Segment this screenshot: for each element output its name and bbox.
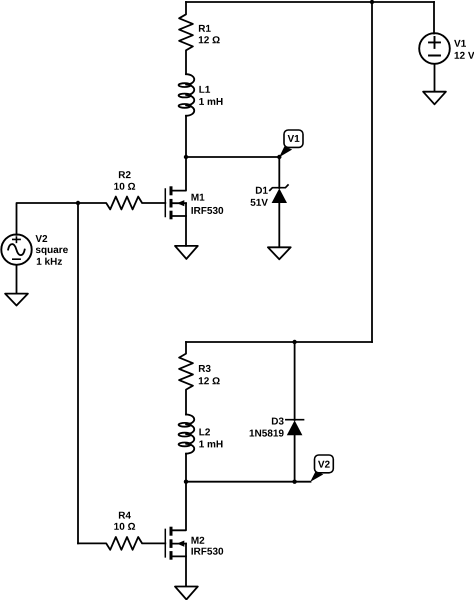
flag V2 — [310, 455, 333, 482]
source V2 — [1, 234, 31, 264]
wire L1 to node — [185, 116, 187, 157]
ground M1 — [175, 246, 198, 259]
source V1 — [419, 33, 450, 64]
diode D3 — [286, 420, 304, 436]
label M1 — [192, 194, 205, 201]
label L1 — [199, 86, 210, 93]
wire bottom top rail — [186, 341, 372, 343]
wire M1 source — [185, 203, 187, 246]
node D3 bottom — [292, 480, 296, 484]
wire D1 top — [278, 157, 280, 188]
inductor L2 — [186, 415, 194, 454]
wire D3 top — [294, 342, 296, 420]
ground M2 — [175, 587, 198, 600]
wire top rail — [186, 1, 434, 3]
wire node to D1 — [186, 156, 279, 158]
flag V1 — [279, 130, 303, 157]
transistor M2 — [165, 527, 186, 560]
wire right vertical — [371, 2, 373, 342]
ground V2 — [5, 294, 28, 306]
label R1 — [199, 25, 211, 32]
label V2 source — [36, 235, 48, 242]
wire M2 drain — [172, 482, 186, 531]
label R3 — [199, 365, 211, 372]
label R2 — [119, 171, 131, 178]
node M2 drain — [184, 480, 188, 484]
node D1 top — [277, 155, 281, 159]
label D1 — [256, 187, 268, 194]
label M2 — [192, 537, 205, 544]
resistor R1 — [179, 2, 193, 74]
wire V2 bottom — [16, 265, 18, 294]
diode D1 zener — [270, 185, 288, 203]
node drain M1 — [184, 155, 188, 159]
label V1 value — [454, 40, 466, 47]
wire V1 top lead — [433, 2, 435, 34]
transistor M1 — [165, 186, 186, 219]
ground D1 — [268, 247, 291, 259]
wire M1 drain — [172, 157, 186, 191]
ground V1 — [423, 92, 446, 105]
inductor L1 — [186, 74, 194, 116]
node D3 top — [292, 340, 296, 344]
node gate junction — [76, 201, 80, 205]
wire to V2 — [17, 203, 79, 235]
wire M2 source — [185, 544, 187, 586]
wire bottom rail — [186, 481, 311, 483]
resistor R3 — [179, 342, 193, 415]
wire V1 bottom lead — [434, 64, 436, 91]
node top junction — [370, 0, 374, 4]
wire D3 bottom — [294, 435, 296, 482]
label D3 — [272, 418, 284, 425]
label L2 — [199, 428, 210, 435]
label R4 — [119, 512, 131, 519]
resistor R4 — [78, 537, 165, 550]
wire left vertical — [77, 203, 79, 543]
resistor R2 — [78, 197, 165, 210]
wire D1 bottom — [278, 203, 280, 247]
wire L2 bottom — [185, 454, 187, 482]
